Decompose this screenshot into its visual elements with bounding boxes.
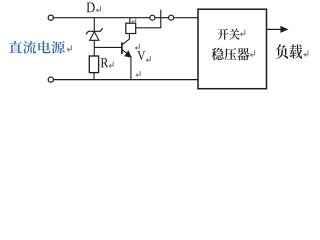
wire bottom rail from input terminal to regulator (54, 79, 199, 81)
regulator box 开关稳压器 (198, 9, 267, 89)
zener diode D (cathode bar with bent ends, triangle below) (86, 28, 103, 40)
terminal: DC input - (48, 77, 53, 82)
wire: relay armature link from coil to contact bar (136, 10, 161, 28)
label 开关 (line 1 in box) (218, 29, 240, 40)
pilcrow after 开关 (240, 30, 245, 37)
arrow: regulator output to load (267, 26, 289, 33)
pilcrow at relay coil corner (132, 19, 136, 23)
transistor V base bar (121, 42, 123, 54)
transistor V emitter lead with arrow, down to bottom rail (122, 50, 131, 80)
pilcrow after V (146, 56, 151, 62)
label 稳压器 (line 2 in box) (212, 48, 250, 61)
label 负载 (load) (276, 44, 302, 59)
pilcrow after R (109, 62, 114, 69)
resistor R (89, 56, 98, 73)
pilcrow above V (135, 44, 140, 51)
terminal: DC input + (48, 15, 53, 20)
pilcrow below V near emitter (135, 71, 140, 77)
relay contact terminal circle right (169, 15, 174, 20)
wire: zener anode down to node B and resistor R (93, 40, 95, 56)
pilcrow after 负载 (303, 50, 308, 57)
relay contact terminal circle left (150, 15, 155, 20)
wire: relay coil top stub to top rail (129, 18, 131, 24)
pilcrow after D (96, 6, 101, 13)
relay coil K (rectangle) (126, 23, 136, 33)
transistor V collector lead to relay coil (122, 34, 129, 45)
wire: top lead of zener D from top rail (93, 18, 95, 32)
wire top rail from input terminal to regulator (54, 17, 199, 19)
label R (101, 58, 108, 67)
label D (87, 2, 95, 12)
pilcrow after 稳压器 (250, 50, 255, 57)
label V (137, 51, 145, 60)
pilcrow after 直流电源 (67, 45, 72, 52)
wire: resistor bottom lead to bottom rail (93, 73, 95, 80)
label 直流电源 (DC power source) (9, 41, 65, 54)
wire: base lead from node B to transistor V (94, 46, 121, 48)
